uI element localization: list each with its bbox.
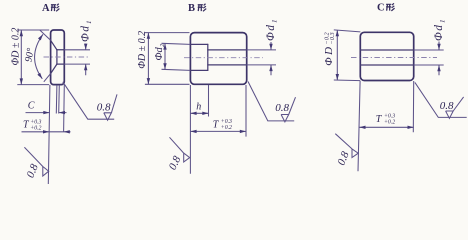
- hole top line: [57, 49, 64, 51]
- hole lines C: [360, 50, 413, 65]
- countersink cone bottom edge: [51, 64, 57, 74]
- counterbore bottom line: [190, 69, 207, 71]
- body A (countersunk disc, side view): [51, 30, 65, 85]
- svg-text:0.8: 0.8: [275, 102, 289, 114]
- dim phiD +-0.2 (B): [145, 33, 190, 85]
- counterbore step: [207, 44, 209, 70]
- svg-text:B: B: [188, 3, 195, 14]
- svg-text:0.8: 0.8: [167, 154, 184, 172]
- cone/hole intersection edge: [56, 50, 58, 64]
- dim C: [26, 112, 67, 114]
- dim phid2 (B): [162, 43, 191, 70]
- roughness 0.8 (B left face, rotated): [167, 137, 190, 172]
- svg-text:T: T: [213, 119, 220, 130]
- title C xing: [377, 2, 395, 13]
- svg-text:T: T: [23, 120, 30, 131]
- dim phid1 (C): [414, 50, 444, 65]
- hole lines B: [208, 50, 247, 65]
- svg-text:+0.2: +0.2: [30, 125, 41, 131]
- dim phiD -0.2/-0.3 (C): [334, 30, 361, 81]
- body C (plain cylinder block): [360, 32, 413, 80]
- svg-text:Φd₁: Φd₁: [265, 18, 277, 41]
- angle arc 90deg: [35, 34, 43, 79]
- roughness 0.8 (A cone face): [63, 82, 117, 120]
- svg-text:A: A: [42, 3, 50, 14]
- hole bottom line: [57, 63, 64, 65]
- roughness 0.8 (C left face, rotated): [335, 134, 358, 167]
- ext lines below B: [190, 85, 246, 174]
- dim phid1 (B): [247, 50, 276, 65]
- counterbore top line: [190, 43, 207, 45]
- svg-text:Φd₁: Φd₁: [79, 19, 91, 42]
- dim h: [190, 112, 208, 114]
- svg-text:h: h: [196, 101, 201, 112]
- svg-text:0.8: 0.8: [335, 149, 351, 167]
- svg-text:Φd₂: Φd₂: [154, 43, 165, 60]
- svg-text:ΦD ± 0.2: ΦD ± 0.2: [11, 28, 22, 66]
- dim T (B): [190, 130, 246, 132]
- dim phiD +-0.2 (A): [17, 30, 49, 85]
- svg-text:0.8: 0.8: [97, 102, 111, 114]
- dim phid1 (A): [64, 50, 90, 64]
- svg-text:Φd₁: Φd₁: [433, 18, 445, 41]
- roughness 0.8 (C bore face): [415, 82, 467, 118]
- svg-text:ΦD: ΦD: [323, 44, 335, 65]
- centerline C: [351, 57, 437, 59]
- centerline A: [44, 56, 89, 58]
- svg-text:C: C: [28, 101, 35, 112]
- roughness 0.8 (A left face, rotated): [24, 147, 48, 179]
- centerline B: [184, 57, 263, 59]
- angle ext line top: [40, 30, 51, 40]
- dim T (C): [359, 126, 413, 128]
- ext lines below A: [48, 85, 64, 184]
- body B (counterbored block): [190, 33, 246, 85]
- svg-text:T: T: [376, 114, 383, 125]
- svg-text:+0.2: +0.2: [221, 125, 232, 131]
- svg-text:+0.2: +0.2: [384, 120, 395, 126]
- svg-text:0.8: 0.8: [440, 100, 454, 112]
- dim T (A): [22, 131, 71, 133]
- title B xing: [188, 3, 206, 14]
- countersink cone top edge: [51, 40, 57, 50]
- ext lines below C: [358, 81, 414, 171]
- roughness 0.8 (B bore face): [248, 82, 296, 122]
- svg-text:C: C: [377, 2, 385, 13]
- angle ext line bottom: [44, 74, 51, 82]
- title A xing: [42, 3, 59, 14]
- svg-text:0.8: 0.8: [25, 162, 41, 180]
- svg-text:−0.3: −0.3: [329, 32, 336, 44]
- svg-text:ΦD ± 0.2: ΦD ± 0.2: [137, 31, 148, 69]
